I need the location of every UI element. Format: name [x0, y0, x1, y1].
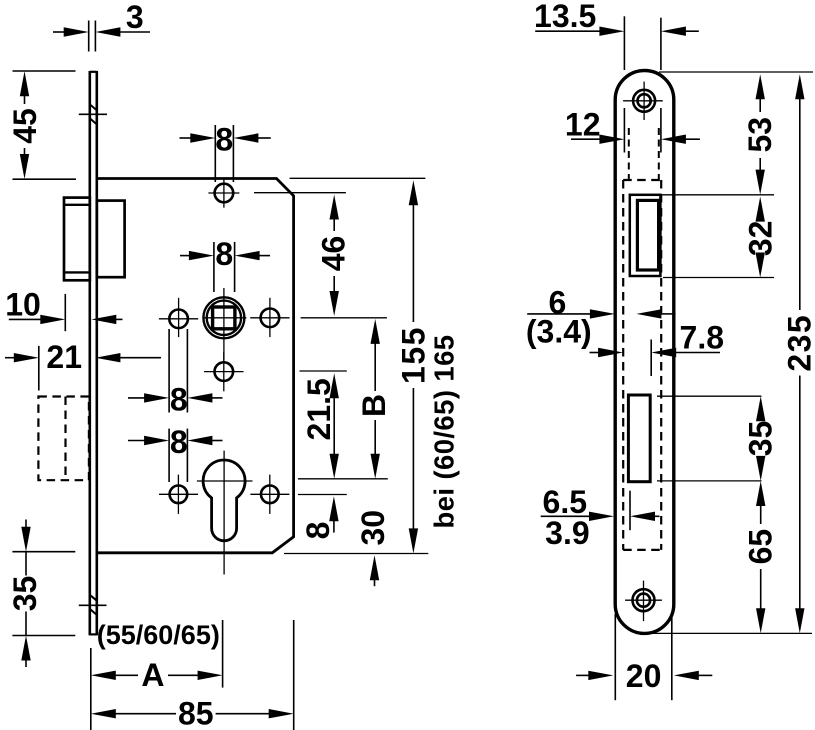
svg-text:(55/60/65): (55/60/65) — [97, 620, 220, 650]
svg-text:30: 30 — [355, 510, 391, 546]
dimension 155 case height — [395, 180, 431, 553]
latch bolt body — [97, 201, 125, 278]
extension line plate top — [659, 71, 813, 73]
dimension 10 latch projection — [5, 287, 122, 332]
svg-text:3: 3 — [126, 0, 144, 35]
note (55/60/65) — [97, 620, 220, 650]
extension line case top — [290, 177, 426, 179]
dimension 35 plate below case — [7, 520, 75, 668]
dimension 235 plate length — [782, 74, 815, 633]
dimension 30 cylinder to case bottom — [355, 510, 391, 586]
left fixing hole — [159, 298, 198, 337]
dimension A backset — [91, 620, 223, 730]
break mark top of faceplate — [79, 104, 107, 124]
svg-text:10: 10 — [5, 287, 41, 323]
euro profile cylinder hole — [197, 451, 253, 575]
svg-text:7.8: 7.8 — [680, 320, 724, 356]
dimension 6 (3.4) — [526, 285, 676, 350]
right fixing hole — [250, 298, 289, 337]
dimension 6.5 / 3.9 — [541, 484, 660, 551]
extension line bolt bottom — [657, 480, 762, 482]
dimension 3 faceplate thickness — [53, 0, 150, 52]
dimension 45 plate top to case — [7, 71, 76, 179]
dimension 65 — [743, 481, 779, 633]
upper fixing hole — [208, 178, 239, 207]
dimension 35 bolt cutout — [743, 396, 779, 481]
svg-text:20: 20 — [626, 658, 662, 694]
extension line latch top — [662, 194, 775, 196]
lower right fixing hole — [250, 475, 289, 514]
dimension B spindle to cylinder — [356, 319, 392, 479]
deadbolt cutout — [628, 395, 650, 482]
svg-text:35: 35 — [7, 576, 43, 612]
extension line lower holes — [298, 494, 347, 496]
deadbolt thrown position (dashed) — [38, 397, 89, 481]
dimension 13.5 — [534, 0, 699, 153]
dimension 8 spindle square — [180, 236, 270, 292]
latch cutout — [630, 195, 661, 276]
note bei (60/65) 165 — [429, 334, 460, 528]
extension line upper hole centre — [254, 192, 346, 194]
dimension 8 upper hole — [180, 122, 271, 182]
faceplate front view (rounded) — [615, 71, 674, 634]
dimension 46 case top to spindle — [316, 195, 352, 317]
dimension 8 left hole upper — [128, 329, 223, 417]
dimension 53 — [742, 74, 778, 194]
svg-text:8: 8 — [215, 236, 233, 272]
svg-text:53: 53 — [742, 117, 778, 153]
faceplate side view (forend plate) — [90, 71, 97, 635]
svg-text:155: 155 — [395, 326, 431, 384]
extension line plate bottom — [651, 632, 812, 634]
extension line latch bottom — [663, 277, 774, 279]
dimension 21.5 — [301, 373, 339, 479]
svg-text:B: B — [356, 394, 392, 417]
break mark bottom of faceplate — [79, 595, 107, 615]
svg-text:235: 235 — [782, 314, 815, 372]
svg-text:45: 45 — [7, 108, 43, 144]
svg-text:21.5: 21.5 — [301, 378, 337, 440]
dimension 20 plate width — [576, 614, 712, 701]
extension line bolt top — [657, 395, 762, 397]
extension line case bottom — [284, 553, 428, 555]
dimension 12 — [565, 106, 700, 143]
top screw hole — [623, 82, 663, 120]
dimension 85 case depth — [91, 620, 294, 730]
svg-text:8: 8 — [300, 522, 336, 540]
latch bolt head — [64, 198, 90, 281]
svg-text:A: A — [141, 657, 164, 693]
svg-text:85: 85 — [178, 696, 214, 730]
svg-text:12: 12 — [565, 106, 601, 142]
extension line cylinder centre — [298, 478, 388, 480]
svg-text:bei (60/65) 165: bei (60/65) 165 — [429, 334, 460, 528]
svg-text:13.5: 13.5 — [534, 0, 596, 34]
lower left fixing hole — [159, 475, 198, 514]
svg-text:21: 21 — [46, 339, 82, 375]
svg-text:8: 8 — [170, 424, 188, 460]
bottom screw hole — [625, 581, 662, 622]
svg-text:65: 65 — [743, 529, 779, 565]
latch bolt face — [637, 200, 658, 270]
svg-text:8: 8 — [215, 122, 233, 158]
extension line hole below spindle — [300, 370, 347, 372]
hole below spindle — [204, 352, 243, 392]
hidden lock case edges (dashed 12) — [629, 128, 659, 182]
hidden lock case outline (dashed box) — [623, 180, 661, 550]
extension line spindle centre — [301, 317, 387, 319]
dimension 32 — [743, 197, 779, 278]
svg-text:32: 32 — [743, 221, 779, 257]
dimension 8 cylinder to lower holes — [300, 496, 338, 539]
dimension 7.8 — [590, 320, 725, 376]
svg-text:3.9: 3.9 — [545, 515, 589, 551]
dimension 8 left hole lower — [128, 424, 223, 482]
svg-text:46: 46 — [316, 236, 352, 272]
lock case body outline — [97, 179, 294, 553]
svg-text:8: 8 — [170, 381, 188, 417]
svg-text:35: 35 — [743, 421, 779, 457]
dimension 21 deadbolt projection — [5, 339, 161, 391]
spindle follower with 8mm square — [203, 288, 246, 361]
svg-text:(3.4): (3.4) — [526, 314, 592, 350]
